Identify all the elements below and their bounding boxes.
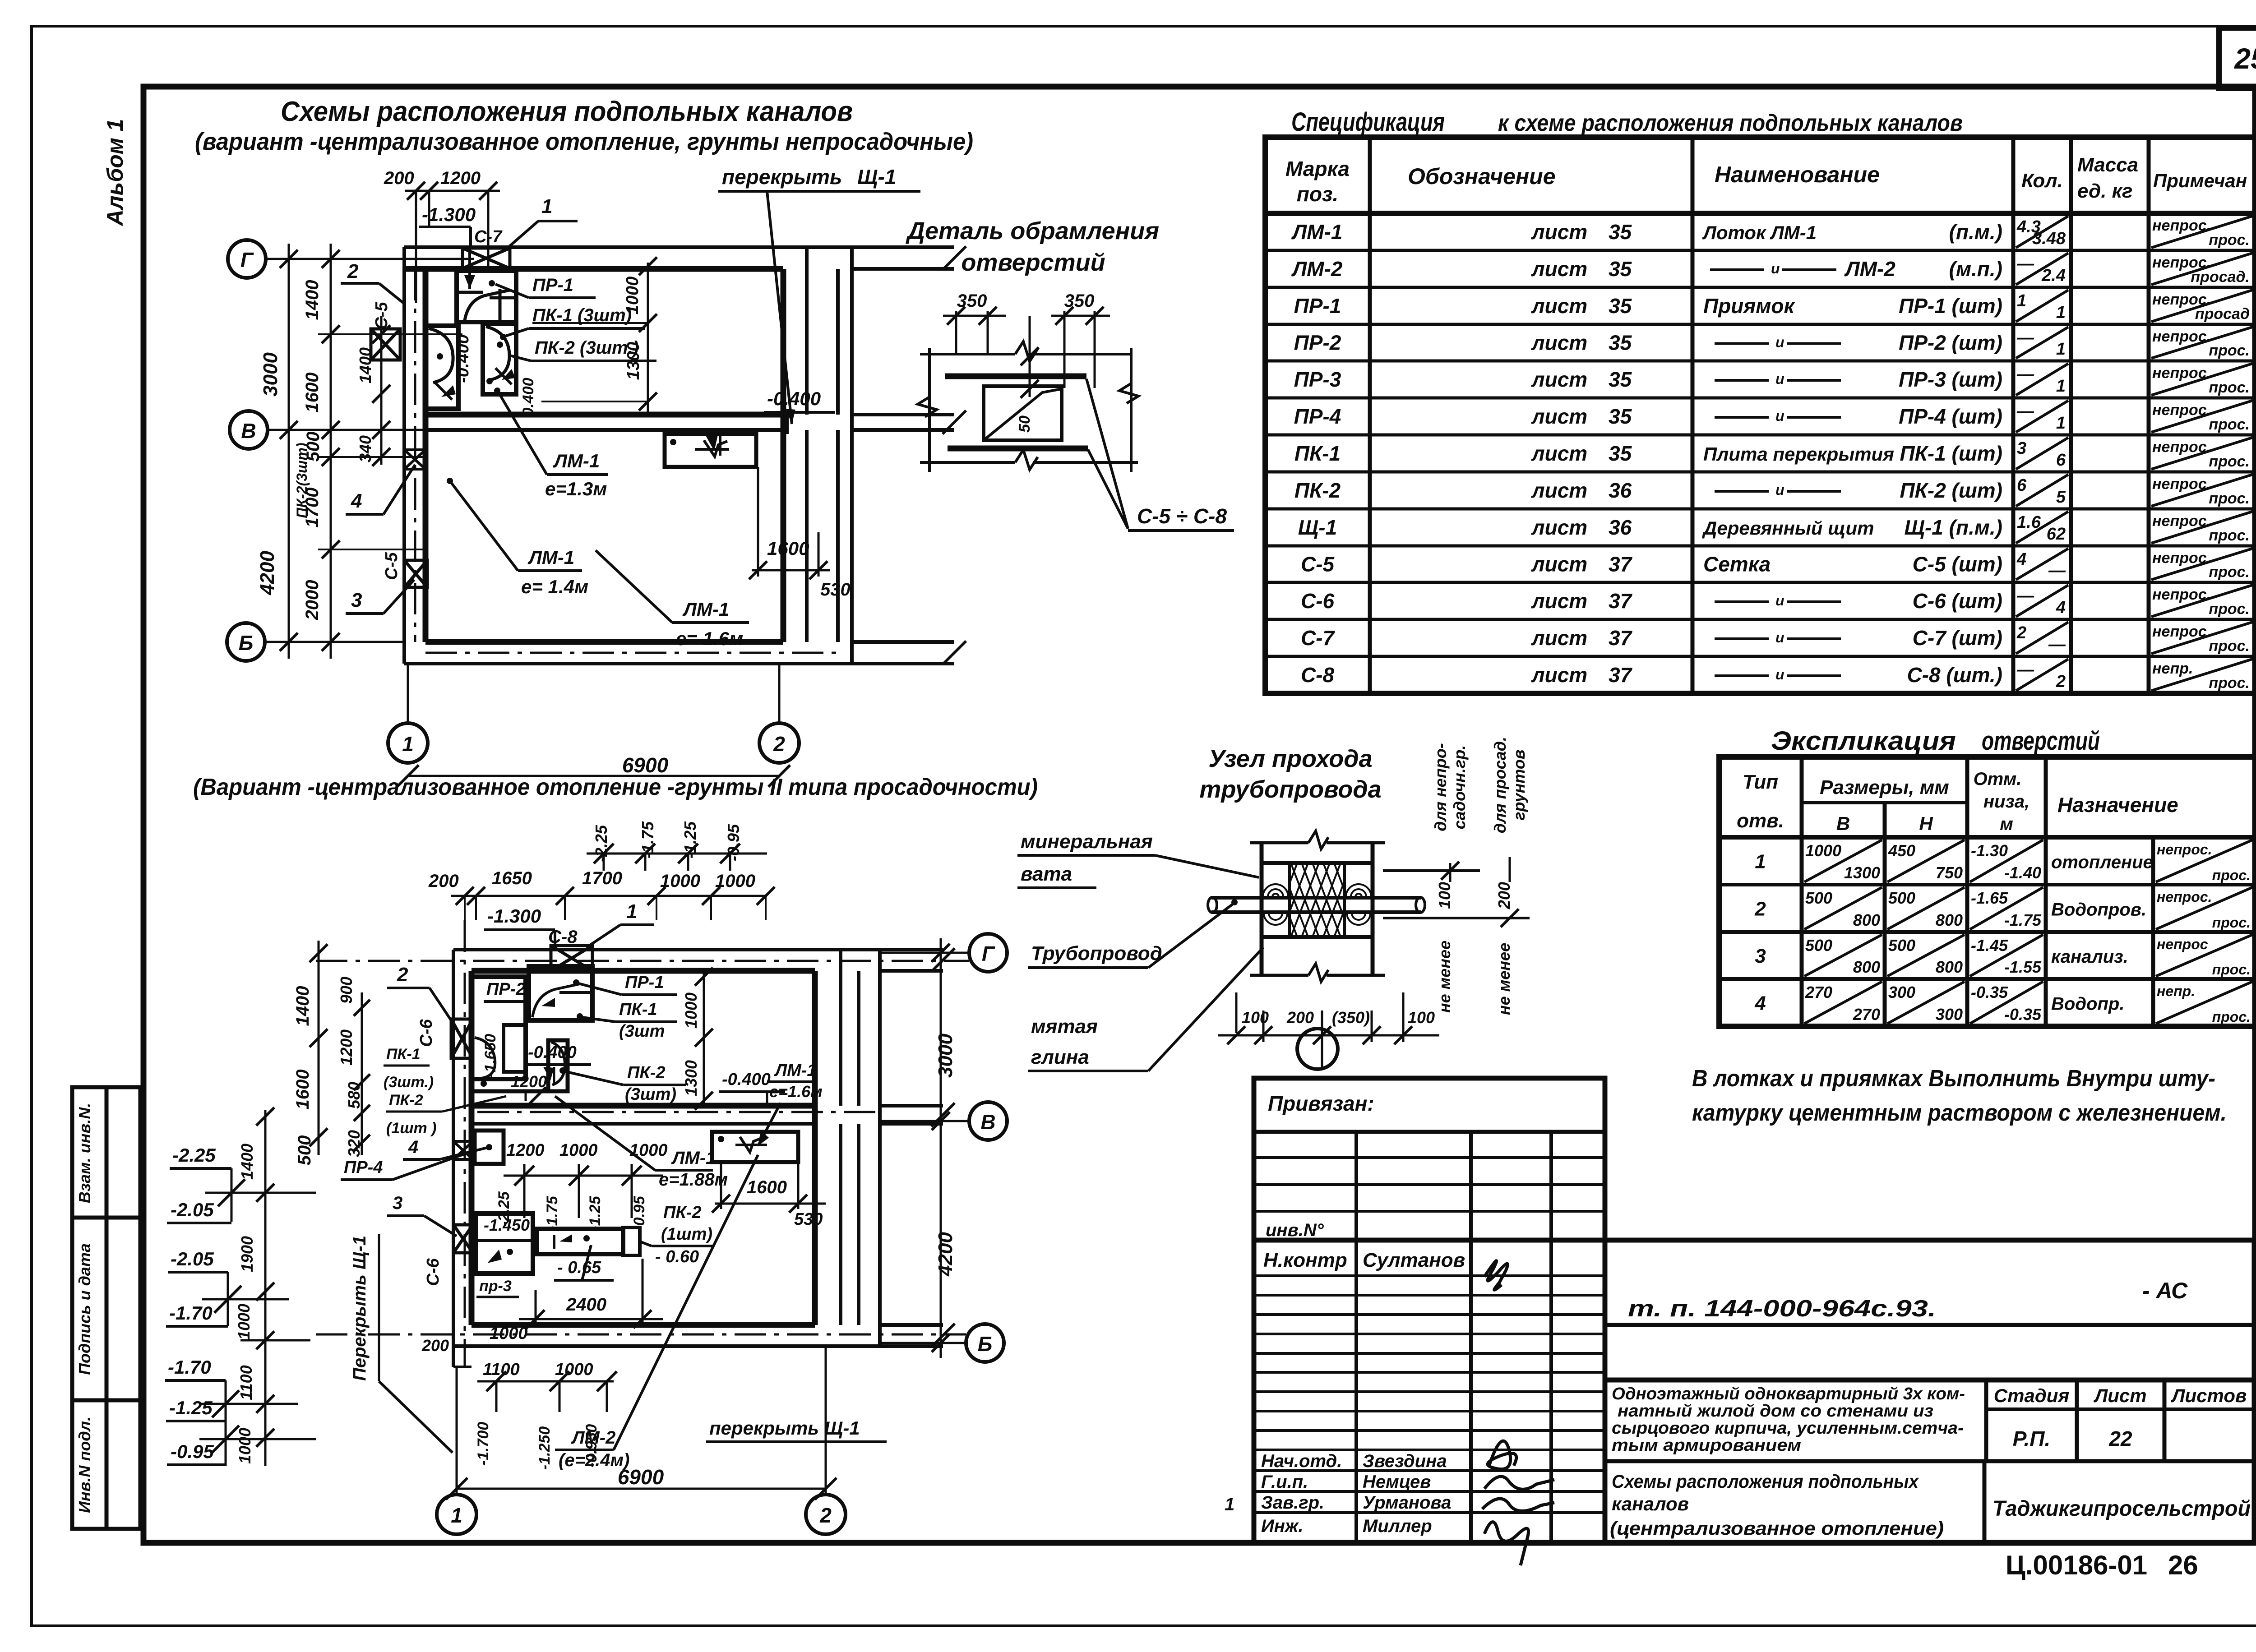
svg-text:1400: 1400 (356, 347, 374, 383)
svg-text:-1.250: -1.250 (536, 1426, 553, 1470)
svg-text:ЛМ-1: ЛМ-1 (1291, 220, 1343, 244)
svg-text:прос.: прос. (2209, 453, 2250, 470)
svg-text:Привязан:: Привязан: (1268, 1092, 1374, 1115)
svg-text:Водопров.: Водопров. (2051, 900, 2146, 920)
svg-text:ПК-2: ПК-2 (627, 1063, 665, 1082)
svg-text:Масса: Масса (2077, 154, 2138, 176)
svg-text:1.6: 1.6 (2017, 513, 2041, 532)
svg-text:1600: 1600 (293, 1070, 313, 1110)
detail leader C5-C8 (1086, 379, 1128, 529)
svg-text:1200: 1200 (440, 168, 481, 188)
svg-text:лист: лист (1531, 479, 1587, 502)
svg-text:и: и (1775, 629, 1784, 646)
svg-text:-1.300: -1.300 (487, 905, 541, 927)
svg-text:е=1.88м: е=1.88м (659, 1170, 728, 1190)
svg-text:прос.: прос. (2209, 563, 2250, 581)
svg-text:лист: лист (1531, 516, 1587, 539)
svg-text:прос.: прос. (2209, 379, 2250, 396)
svg-text:ПК-2: ПК-2 (663, 1203, 701, 1222)
svg-text:прос.: прос. (2209, 231, 2250, 249)
plan2 axis dashdot lines (316, 960, 969, 962)
svg-text:450: 450 (1888, 841, 1915, 860)
svg-text:мятая: мятая (1031, 1015, 1098, 1038)
plan2 elevation chain (264, 1110, 267, 1466)
svg-text:—: — (2016, 328, 2034, 347)
svg-text:и: и (1771, 260, 1780, 277)
svg-text:грунтов: грунтов (1510, 749, 1528, 820)
svg-text:трубопровода: трубопровода (1199, 776, 1381, 803)
svg-text:1400: 1400 (302, 280, 322, 320)
svg-text:лист: лист (1531, 663, 1587, 687)
svg-text:непрос.: непрос. (2157, 889, 2212, 905)
svg-text:Р.П.: Р.П. (2013, 1427, 2051, 1450)
svg-text:-1.55: -1.55 (2004, 958, 2042, 976)
svg-text:Назначение: Назначение (2057, 793, 2178, 817)
plan2 mesh C6 upper (451, 1019, 473, 1058)
svg-text:1000: 1000 (715, 871, 755, 891)
svg-text:900: 900 (337, 977, 356, 1004)
plan1 arrow -1300 (468, 247, 471, 289)
svg-text:непрос.: непрос. (2152, 401, 2211, 419)
svg-text:-0.400: -0.400 (722, 1070, 771, 1089)
plan1 mesh C5 upper (371, 329, 400, 360)
plan1 axis G (228, 240, 266, 278)
svg-text:-0.400: -0.400 (528, 1043, 577, 1062)
svg-text:1300: 1300 (682, 1060, 700, 1096)
svg-text:-1.450: -1.450 (484, 1216, 530, 1234)
svg-text:ПК-2 (шт): ПК-2 (шт) (1900, 479, 2002, 502)
svg-text:1200: 1200 (337, 1029, 356, 1066)
svg-text:инв.N°: инв.N° (1266, 1220, 1324, 1240)
svg-text:(3шт.): (3шт.) (384, 1074, 434, 1091)
svg-text:Листов: Листов (2171, 1385, 2247, 1406)
svg-text:Взам. инв.N.: Взам. инв.N. (75, 1103, 94, 1204)
uzel pipe (1211, 896, 1421, 900)
svg-text:Щ-1: Щ-1 (1298, 516, 1337, 539)
plan2 mesh C6 lower (453, 1225, 473, 1253)
svg-text:прос.: прос. (2209, 527, 2250, 544)
svg-text:35: 35 (1609, 368, 1632, 391)
title block right part (1605, 1240, 2254, 1543)
svg-text:37: 37 (1609, 626, 1633, 650)
svg-text:прос.: прос. (2212, 867, 2251, 883)
svg-text:лист: лист (1531, 442, 1587, 465)
svg-text:низа,: низа, (1983, 792, 2029, 812)
svg-text:1000: 1000 (236, 1428, 254, 1464)
svg-text:26: 26 (2168, 1550, 2198, 1580)
svg-text:Стадия: Стадия (1994, 1385, 2069, 1406)
svg-text:-2.25: -2.25 (172, 1144, 216, 1166)
svg-text:4: 4 (1754, 992, 1766, 1015)
svg-text:37: 37 (1609, 663, 1633, 687)
svg-text:е= 1.6м: е= 1.6м (676, 628, 743, 649)
svg-text:пр-3: пр-3 (479, 1278, 512, 1295)
svg-text:непрос.: непрос. (2152, 549, 2211, 567)
plan1 wall G top (404, 245, 852, 249)
svg-text:- 0.60: - 0.60 (655, 1247, 699, 1266)
svg-text:Схемы расположения подпольных: Схемы расположения подпольных (1612, 1471, 1919, 1492)
svg-text:1650: 1650 (492, 868, 532, 888)
svg-text:340: 340 (356, 435, 374, 462)
svg-text:500: 500 (1805, 889, 1832, 907)
svg-text:ЛМ-1: ЛМ-1 (553, 450, 600, 471)
svg-text:35: 35 (1609, 405, 1632, 428)
svg-text:500: 500 (1888, 889, 1915, 907)
svg-text:глина: глина (1031, 1046, 1089, 1068)
svg-text:4200: 4200 (934, 1232, 957, 1277)
svg-text:непрос.: непрос. (2152, 475, 2211, 493)
svg-text:непрос.: непрос. (2152, 512, 2211, 530)
svg-text:1: 1 (626, 900, 637, 923)
svg-text:отв.: отв. (1737, 810, 1784, 832)
plan2 left chain 2 (361, 992, 363, 1155)
svg-text:2: 2 (2016, 623, 2026, 642)
svg-text:С-8 (шт.): С-8 (шт.) (1907, 663, 2002, 687)
svg-text:Лоток ЛМ-1: Лоток ЛМ-1 (1702, 222, 1817, 243)
svg-text:-1.70: -1.70 (168, 1357, 211, 1378)
svg-text:Размеры, мм: Размеры, мм (1820, 776, 1949, 798)
svg-text:непрос.: непрос. (2152, 586, 2211, 603)
svg-text:к схеме расположения подпольны: к схеме расположения подпольных каналов (1498, 110, 1963, 136)
svg-text:800: 800 (1853, 958, 1880, 976)
svg-text:ПК-2: ПК-2 (1294, 479, 1341, 502)
svg-text:катурку цементным раствором с: катурку цементным раствором с железнение… (1692, 1100, 2227, 1126)
svg-text:-1.45: -1.45 (1971, 936, 2008, 955)
sheet number box 25 (2219, 28, 2256, 88)
svg-text:1200: 1200 (506, 1141, 545, 1160)
svg-text:100: 100 (1242, 1008, 1269, 1027)
svg-text:4: 4 (2016, 550, 2026, 569)
svg-text:С-5: С-5 (382, 552, 401, 580)
svg-text:3000: 3000 (259, 352, 282, 397)
plan1 wall V interior (425, 412, 783, 418)
svg-text:36: 36 (1609, 479, 1632, 502)
plan1 left chain mid (330, 244, 332, 659)
svg-text:37: 37 (1609, 553, 1633, 576)
svg-text:ед. кг: ед. кг (2077, 180, 2132, 202)
svg-text:2: 2 (2056, 672, 2066, 691)
svg-text:500: 500 (1888, 936, 1915, 955)
svg-text:6900: 6900 (618, 1465, 664, 1489)
svg-text:580: 580 (345, 1082, 363, 1109)
svg-text:1000: 1000 (235, 1304, 253, 1340)
svg-text:—: — (2016, 402, 2034, 421)
svg-text:непрос.: непрос. (2152, 328, 2211, 345)
svg-text:Урманова: Урманова (1363, 1493, 1451, 1513)
svg-text:800: 800 (1853, 911, 1880, 929)
svg-text:500: 500 (1805, 936, 1832, 955)
detail hole (984, 386, 1062, 440)
svg-text:2: 2 (1754, 898, 1766, 920)
svg-text:Схемы расположения подпольных: Схемы расположения подпольных каналов (281, 96, 853, 127)
svg-text:(м.п.): (м.п.) (1949, 257, 2002, 281)
plan1 axis B (227, 623, 265, 661)
svg-text:вата: вата (1021, 863, 1072, 885)
svg-text:С-8: С-8 (548, 927, 578, 947)
svg-text:Марка: Марка (1285, 157, 1350, 180)
plan2 wall left (452, 950, 455, 1367)
svg-text:и: и (1775, 371, 1784, 387)
svg-text:С-7 (шт): С-7 (шт) (1913, 626, 2002, 650)
svg-text:6900: 6900 (622, 753, 669, 777)
svg-text:(1шт): (1шт) (661, 1225, 712, 1244)
svg-text:Примечан: Примечан (2153, 170, 2247, 191)
svg-text:С-7: С-7 (1301, 626, 1336, 650)
svg-text:ПК-2: ПК-2 (389, 1092, 423, 1109)
svg-text:3.48: 3.48 (2032, 229, 2066, 248)
svg-text:Перекрыть Щ-1: Перекрыть Щ-1 (350, 1236, 370, 1381)
svg-text:Щ-1: Щ-1 (857, 165, 896, 189)
svg-text:и: и (1775, 408, 1784, 424)
svg-text:лист: лист (1531, 553, 1587, 576)
svg-text:В: В (241, 419, 256, 443)
svg-text:1000: 1000 (555, 1360, 593, 1379)
plan2 inner rect (504, 1025, 526, 1072)
svg-text:каналов: каналов (1612, 1493, 1689, 1514)
svg-text:прос.: прос. (2212, 961, 2251, 978)
svg-text:ПР-1: ПР-1 (532, 275, 573, 295)
svg-text:лист: лист (1531, 220, 1587, 244)
svg-text:ПК-2 (3шт.): ПК-2 (3шт.) (535, 338, 639, 358)
svg-text:-2.05: -2.05 (171, 1248, 214, 1269)
plan1 pryamok lower room (665, 434, 756, 467)
svg-text:лист: лист (1531, 626, 1587, 650)
svg-text:- 0.65: - 0.65 (557, 1258, 601, 1277)
plan2 left small pryamok PR4 (475, 1131, 504, 1164)
svg-text:100: 100 (1408, 1008, 1435, 1027)
svg-text:ЛМ-1: ЛМ-1 (774, 1061, 817, 1080)
svg-text:6: 6 (2017, 476, 2027, 495)
left stamp box Vzam inv N (72, 1087, 140, 1218)
uzel circle (1321, 1035, 1323, 1067)
svg-text:ПР-1 (шт): ПР-1 (шт) (1899, 294, 2002, 318)
svg-text:прос.: прос. (2209, 674, 2250, 692)
svg-text:2: 2 (819, 1504, 832, 1527)
svg-text:непрос: непрос (2157, 936, 2208, 952)
plan1 axis dashdot (425, 652, 838, 654)
svg-text:100: 100 (1435, 882, 1454, 909)
svg-text:1: 1 (451, 1504, 462, 1527)
svg-text:прос.: прос. (2209, 490, 2250, 507)
plan1 vert dim 1000 1300 (647, 263, 649, 415)
svg-text:ПК-1: ПК-1 (619, 1000, 657, 1019)
svg-text:Наименование: Наименование (1715, 162, 1880, 187)
title block outline (1254, 1078, 1605, 1543)
uzel right refs (1383, 869, 1480, 872)
svg-text:ПК-1: ПК-1 (1294, 442, 1341, 465)
svg-text:1000: 1000 (623, 277, 642, 315)
svg-text:2400: 2400 (566, 1295, 606, 1315)
svg-text:3: 3 (1755, 945, 1766, 967)
svg-text:ЛМ-1: ЛМ-1 (527, 547, 574, 568)
svg-text:сырцового кирпича, усиленным.с: сырцового кирпича, усиленным.сетча- (1612, 1419, 1964, 1438)
svg-text:1400: 1400 (293, 986, 313, 1026)
svg-text:С-6: С-6 (1301, 589, 1335, 613)
svg-text:Щ-1 (п.м.): Щ-1 (п.м.) (1905, 516, 2003, 539)
svg-text:1: 1 (1225, 1495, 1234, 1514)
svg-text:е=1.6м: е=1.6м (769, 1082, 823, 1101)
svg-text:отверстий: отверстий (961, 249, 1105, 276)
svg-text:Кол.: Кол. (2021, 170, 2063, 192)
svg-text:4: 4 (408, 1137, 418, 1157)
plan1 wall right axis2 (781, 269, 786, 642)
svg-text:300: 300 (1888, 983, 1915, 1001)
svg-text:Таджикгипросельстрой: Таджикгипросельстрой (1992, 1497, 2251, 1521)
plan2 axis V (969, 1102, 1007, 1140)
svg-text:лист: лист (1531, 405, 1587, 428)
svg-text:отопление: отопление (2051, 853, 2153, 872)
svg-text:канализ.: канализ. (2051, 947, 2128, 967)
svg-text:ПК-2(3шт): ПК-2(3шт) (294, 443, 310, 518)
svg-text:поз.: поз. (1297, 182, 1338, 206)
svg-text:ПР-4: ПР-4 (344, 1158, 383, 1177)
svg-text:-0.95: -0.95 (171, 1441, 214, 1462)
svg-text:1: 1 (2056, 414, 2066, 433)
svg-text:35: 35 (1609, 331, 1632, 355)
svg-text:Приямок: Приямок (1703, 294, 1795, 318)
plan1 channel PK2 left (426, 326, 458, 409)
svg-text:прос.: прос. (2209, 342, 2250, 359)
svg-text:прос.: прос. (2209, 416, 2250, 433)
svg-text:3: 3 (2017, 439, 2026, 458)
uzel wall (1250, 841, 1308, 844)
svg-text:(централизованное отопление): (централизованное отопление) (1610, 1518, 1944, 1539)
svg-text:5: 5 (2056, 488, 2066, 507)
svg-text:-1.40: -1.40 (2004, 863, 2041, 882)
plan2 left chain 1 (318, 941, 320, 1155)
svg-text:1600: 1600 (302, 373, 322, 413)
svg-text:В: В (1836, 813, 1850, 834)
svg-text:—: — (2016, 586, 2034, 605)
svg-text:22: 22 (2108, 1427, 2132, 1450)
thick divider (1254, 1238, 1605, 1243)
svg-text:200: 200 (421, 1336, 449, 1355)
plan2 vert dims 1000 1300 (703, 971, 705, 1106)
svg-text:1000: 1000 (559, 1141, 598, 1160)
svg-text:прос.: прос. (2209, 600, 2250, 618)
plan2 pryamok PR2 (472, 977, 526, 1079)
svg-text:Инв.N подл.: Инв.N подл. (75, 1417, 94, 1513)
svg-text:ПР-3 (шт): ПР-3 (шт) (1899, 368, 2002, 391)
plan2 pryamok right (712, 1132, 798, 1162)
svg-text:Н.контр: Н.контр (1263, 1249, 1347, 1271)
svg-text:1: 1 (541, 195, 552, 217)
plan1 mesh C7 (462, 248, 510, 268)
svg-text:просад.: просад. (2191, 268, 2250, 286)
plan2 pryamok PR3 (476, 1214, 533, 1274)
svg-text:садочн.гр.: садочн.гр. (1450, 745, 1469, 829)
svg-text:3000: 3000 (934, 1034, 957, 1078)
svg-text:непрос.: непрос. (2152, 438, 2211, 456)
svg-text:1000: 1000 (1805, 841, 1841, 860)
svg-text:В: В (980, 1110, 995, 1134)
plan1 left chain outer (288, 244, 290, 659)
svg-text:2000: 2000 (302, 580, 322, 621)
svg-text:прос.: прос. (2212, 914, 2251, 931)
svg-text:(1шт ): (1шт ) (386, 1120, 436, 1137)
svg-text:Альбом 1: Альбом 1 (102, 119, 128, 226)
svg-text:(п.м.): (п.м.) (1949, 220, 2002, 244)
plan1 pryamok PR1 (457, 271, 516, 322)
svg-text:непрос.: непрос. (2157, 841, 2212, 858)
svg-text:лист: лист (1531, 294, 1587, 318)
svg-text:530: 530 (820, 580, 851, 600)
svg-text:Ц.00186-01: Ц.00186-01 (2006, 1550, 2147, 1580)
svg-text:300: 300 (1936, 1005, 1963, 1024)
svg-text:Инж.: Инж. (1261, 1516, 1304, 1536)
plan2 axis 1 (437, 1495, 476, 1534)
svg-text:непр.: непр. (2157, 983, 2195, 999)
svg-text:(Вариант -централизованное ото: (Вариант -централизованное отопление -гр… (193, 774, 1038, 800)
left stamp box Podpis i data (72, 1218, 140, 1400)
svg-text:750: 750 (1936, 863, 1963, 882)
explication table grid (1719, 757, 2256, 1026)
svg-text:Н: Н (1919, 813, 1933, 834)
svg-text:1900: 1900 (238, 1236, 256, 1272)
svg-text:Обозначение: Обозначение (1408, 164, 1556, 189)
svg-text:непрос.: непрос. (2152, 217, 2211, 234)
svg-text:35: 35 (1609, 220, 1632, 244)
specification table grid (1265, 137, 2256, 693)
plan2 wall right (812, 971, 818, 1325)
svg-text:Нач.отд.: Нач.отд. (1261, 1451, 1342, 1471)
svg-text:6: 6 (2056, 451, 2066, 470)
svg-text:4: 4 (351, 490, 362, 512)
svg-text:и: и (1775, 482, 1784, 498)
svg-text:—: — (2016, 254, 2034, 273)
svg-text:е=1.3м: е=1.3м (545, 478, 607, 499)
svg-text:1600: 1600 (747, 1177, 787, 1197)
svg-text:С-5 ÷ С-8: С-5 ÷ С-8 (1137, 504, 1227, 528)
svg-text:1000: 1000 (682, 992, 700, 1029)
uzel mineral wool hatch (1248, 864, 1405, 936)
svg-text:С-8: С-8 (1301, 663, 1335, 687)
svg-text:-2.05: -2.05 (171, 1199, 214, 1220)
svg-text:62: 62 (2047, 525, 2066, 544)
svg-text:200: 200 (384, 168, 414, 188)
svg-text:1: 1 (2017, 291, 2026, 310)
svg-text:—: — (2048, 561, 2066, 580)
svg-text:800: 800 (1936, 911, 1963, 929)
svg-text:1200: 1200 (511, 1072, 547, 1091)
svg-text:С-5: С-5 (1301, 553, 1335, 576)
svg-text:200: 200 (1495, 882, 1513, 909)
svg-text:т. п. 144-000-964с.93.: т. п. 144-000-964с.93. (1628, 1296, 1936, 1322)
svg-text:0.400: 0.400 (520, 378, 537, 416)
svg-text:ПР-1: ПР-1 (625, 973, 664, 992)
svg-text:Лист: Лист (2093, 1385, 2146, 1406)
plan2 lotok LM2 horizontal (537, 1229, 623, 1254)
plan2 right stubs (880, 948, 943, 951)
svg-text:4: 4 (2056, 598, 2066, 617)
plan2 right chain (940, 938, 942, 1358)
svg-text:ПР-2: ПР-2 (1294, 331, 1341, 355)
svg-text:Сетка: Сетка (1703, 553, 1771, 576)
svg-text:Г: Г (240, 248, 254, 272)
svg-text:-1.75: -1.75 (544, 1195, 561, 1231)
svg-text:530: 530 (794, 1210, 823, 1229)
svg-text:1300: 1300 (1844, 863, 1880, 882)
svg-text:лист: лист (1531, 257, 1587, 281)
plan2 wall G top (453, 948, 880, 951)
plan2 channel PK2 (548, 1040, 568, 1091)
svg-text:Водопр.: Водопр. (2051, 994, 2124, 1014)
svg-text:25: 25 (2234, 42, 2256, 75)
svg-text:-1.65: -1.65 (1971, 889, 2008, 907)
svg-text:В лотках и приямках Выполнить: В лотках и приямках Выполнить Внутри шту… (1692, 1066, 2215, 1092)
svg-text:1: 1 (1755, 851, 1766, 873)
plan2 lower left edge of upper channels (472, 1089, 548, 1094)
